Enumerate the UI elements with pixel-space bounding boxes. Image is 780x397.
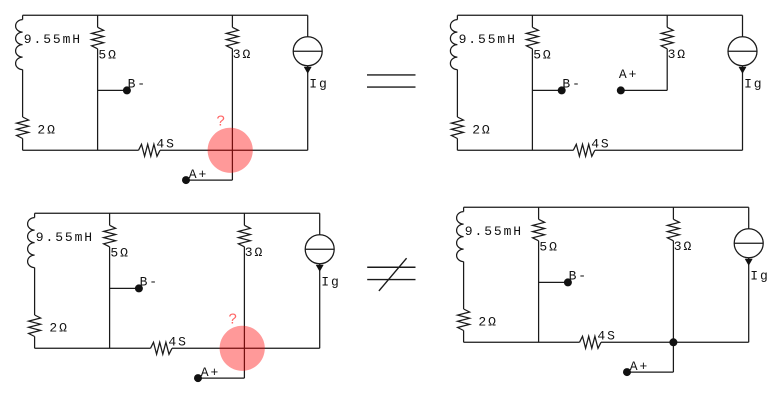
svg-text:3Ω: 3Ω	[245, 245, 264, 260]
svg-text:4S: 4S	[597, 329, 616, 344]
svg-text:B-: B-	[569, 269, 588, 284]
svg-text:B-: B-	[562, 77, 581, 92]
svg-text:Ig: Ig	[309, 77, 328, 92]
svg-text:Ig: Ig	[750, 269, 769, 284]
svg-text:9.55mH: 9.55mH	[36, 230, 94, 245]
svg-text:5Ω: 5Ω	[110, 246, 129, 261]
svg-text:2Ω: 2Ω	[37, 123, 56, 138]
svg-text:9.55mH: 9.55mH	[459, 32, 517, 47]
svg-text:3Ω: 3Ω	[674, 239, 693, 254]
svg-text:4S: 4S	[168, 335, 187, 350]
svg-text:B-: B-	[140, 275, 159, 290]
svg-text:Ig: Ig	[321, 275, 340, 290]
svg-text:B-: B-	[128, 77, 147, 92]
svg-text:A+: A+	[189, 167, 208, 182]
svg-text:9.55mH: 9.55mH	[465, 224, 523, 239]
svg-text:2Ω: 2Ω	[478, 315, 497, 330]
svg-text:?: ?	[228, 312, 237, 329]
svg-text:2Ω: 2Ω	[472, 123, 491, 138]
svg-text:4S: 4S	[156, 137, 175, 152]
svg-text:5Ω: 5Ω	[539, 240, 558, 255]
svg-text:A+: A+	[201, 365, 220, 380]
svg-text:A+: A+	[619, 67, 638, 82]
svg-text:?: ?	[216, 114, 225, 131]
svg-text:5Ω: 5Ω	[98, 48, 117, 63]
svg-text:9.55mH: 9.55mH	[24, 32, 82, 47]
svg-text:3Ω: 3Ω	[233, 47, 252, 62]
svg-text:3Ω: 3Ω	[668, 47, 687, 62]
svg-text:4S: 4S	[591, 137, 610, 152]
svg-text:Ig: Ig	[744, 77, 763, 92]
svg-text:2Ω: 2Ω	[49, 321, 68, 336]
svg-text:A+: A+	[630, 359, 649, 374]
svg-text:5Ω: 5Ω	[533, 48, 552, 63]
